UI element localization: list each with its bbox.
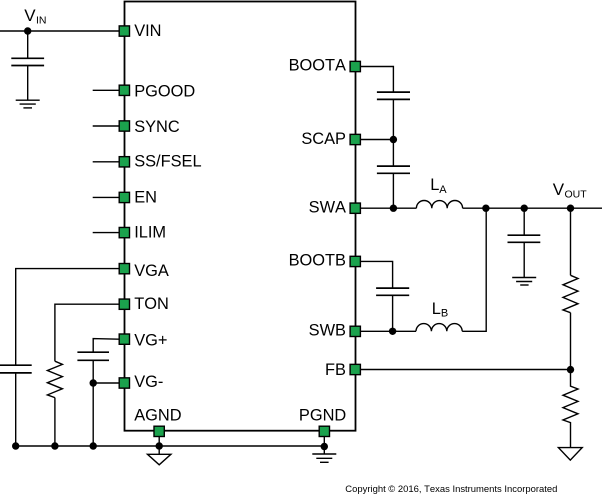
- capacitor C4 boot B: [376, 288, 409, 295]
- pin SCAP: [350, 134, 360, 144]
- node SWA cap junction: [390, 205, 397, 212]
- wire VGA cap bottom: [15, 373, 17, 446]
- svg-text:A: A: [439, 184, 447, 196]
- svg-text:IN: IN: [36, 14, 47, 26]
- svg-text:TON: TON: [134, 295, 169, 313]
- wire PGND down: [323, 437, 325, 455]
- svg-text:SWB: SWB: [309, 322, 346, 340]
- ground input earth: [16, 100, 40, 108]
- wire SS/FSEL stub: [93, 161, 120, 163]
- pin AGND: [154, 426, 164, 436]
- pin ILIM: [119, 227, 129, 237]
- wire PGOOD stub: [93, 89, 120, 91]
- wire bottom ground rail: [16, 445, 325, 447]
- svg-text:SCAP: SCAP: [301, 130, 346, 148]
- wire AGND down: [158, 437, 160, 455]
- wire output cap top: [523, 208, 525, 235]
- wire SCAP stub: [361, 139, 394, 141]
- wire VG+ branch: [93, 339, 119, 353]
- node output cap tap: [521, 205, 528, 212]
- label LA: [430, 176, 447, 196]
- wire SWA to inductor: [361, 207, 417, 209]
- wire output cap bottom: [523, 242, 525, 277]
- pin PGND: [319, 426, 329, 436]
- svg-text:PGOOD: PGOOD: [134, 82, 195, 100]
- node VG- junction: [90, 379, 97, 386]
- wire LB to VOUT node: [462, 208, 486, 331]
- node VIN junction: [24, 27, 31, 34]
- wire SWB to inductor: [361, 330, 416, 332]
- label VOUT net: [553, 180, 588, 201]
- svg-text:BOOTA: BOOTA: [289, 57, 346, 75]
- svg-text:L: L: [430, 176, 439, 194]
- node rail VGA: [12, 442, 19, 449]
- resistor R1 TON: [47, 361, 62, 397]
- svg-text:B: B: [441, 307, 448, 319]
- svg-text:VG-: VG-: [134, 373, 163, 391]
- svg-text:V: V: [553, 180, 565, 199]
- pin SS/FSEL: [119, 157, 129, 167]
- wire TON resistor bottom: [54, 398, 56, 446]
- resistor R3 lower divider: [563, 370, 578, 448]
- wire ILIM stub: [93, 232, 120, 234]
- wire cap C2 to SCAP node: [392, 99, 394, 166]
- wire BOOTA to cap: [361, 67, 394, 93]
- ground output earth: [512, 278, 536, 286]
- ground PGND earth: [312, 454, 336, 462]
- label VIN net: [24, 6, 46, 27]
- pin SWB: [350, 326, 360, 336]
- node rail AGND: [156, 442, 163, 449]
- svg-text:EN: EN: [134, 188, 157, 206]
- capacitor C1 input: [11, 58, 44, 65]
- inductor LA: [416, 201, 462, 209]
- svg-text:VIN: VIN: [134, 22, 161, 40]
- IC U1 body: [125, 2, 356, 431]
- svg-text:SS/FSEL: SS/FSEL: [134, 153, 201, 171]
- wire VG cap bottom to rail: [92, 360, 94, 446]
- svg-text:VGA: VGA: [134, 262, 169, 280]
- pin EN: [119, 192, 129, 202]
- wire cap C4 to SWB: [392, 295, 394, 331]
- svg-text:PGND: PGND: [299, 407, 347, 425]
- svg-text:OUT: OUT: [565, 188, 588, 200]
- pin VGA: [119, 264, 129, 274]
- svg-text:V: V: [24, 6, 36, 25]
- wire upper divider bottom: [570, 313, 572, 370]
- node SCAP junction: [390, 136, 397, 143]
- node VOUT divider tap: [567, 205, 574, 212]
- capacitor C5 VG: [77, 352, 109, 360]
- pin SWA: [350, 203, 360, 213]
- capacitor C6 VGA: [0, 365, 32, 373]
- ground FB triangle: [558, 448, 582, 461]
- wire SYNC stub: [93, 125, 120, 127]
- svg-text:ILIM: ILIM: [134, 224, 166, 242]
- pin TON: [119, 299, 129, 309]
- wire cap C3 to SWA: [392, 173, 394, 208]
- pin PGOOD: [119, 85, 129, 95]
- wire VG- stub: [93, 382, 119, 384]
- capacitor C2 boot A: [377, 92, 410, 99]
- node LB tap: [482, 205, 489, 212]
- pin VG-: [119, 378, 129, 388]
- wire upper divider top: [570, 208, 572, 275]
- pin FB: [350, 364, 360, 374]
- ground AGND triangle: [148, 454, 171, 465]
- node rail PGND: [321, 443, 328, 450]
- pin VIN: [119, 26, 129, 36]
- node rail VG: [90, 442, 97, 449]
- wire TON branch: [55, 304, 119, 361]
- capacitor C7 output: [508, 235, 541, 242]
- label LB: [432, 300, 448, 320]
- svg-text:SWA: SWA: [309, 199, 346, 217]
- svg-text:VG+: VG+: [134, 331, 167, 349]
- pin VG+: [119, 334, 129, 344]
- pin SYNC: [119, 121, 129, 131]
- wire VOUT rail: [463, 207, 602, 209]
- node rail TON: [51, 442, 58, 449]
- svg-text:L: L: [432, 300, 441, 318]
- wire BOOTB to cap: [361, 261, 393, 288]
- svg-text:BOOTB: BOOTB: [289, 252, 346, 270]
- node FB junction: [567, 366, 574, 373]
- svg-text:SYNC: SYNC: [134, 118, 180, 136]
- svg-text:FB: FB: [325, 361, 346, 379]
- wire input cap bottom: [27, 66, 29, 101]
- wire VIN input: [0, 30, 119, 32]
- svg-text:Copyright © 2016, Texas Instru: Copyright © 2016, Texas Instruments Inco…: [345, 484, 557, 495]
- wire EN stub: [93, 196, 120, 198]
- wire VGA branch: [16, 269, 120, 366]
- inductor LB: [416, 324, 462, 332]
- pin BOOTA: [350, 61, 360, 71]
- node SWB cap junction: [389, 328, 396, 335]
- resistor R2 upper divider: [563, 275, 578, 312]
- wire FB to divider: [361, 369, 571, 371]
- wire input cap top: [27, 31, 29, 58]
- pin BOOTB: [350, 256, 360, 266]
- svg-text:AGND: AGND: [134, 407, 182, 425]
- capacitor C3 scap: [377, 166, 410, 173]
